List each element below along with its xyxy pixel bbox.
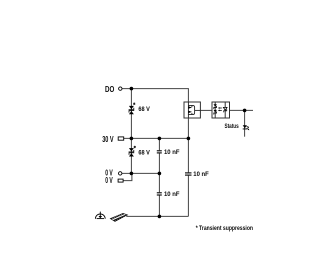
wire LED box to status node [230,109,254,111]
svg-text:0 V: 0 V [105,176,113,185]
status indicator LED box U1 [212,102,230,118]
svg-text:DO: DO [105,84,115,94]
capacitor C3 10nF [185,173,192,175]
node DO junction [130,87,134,91]
wire DO horizontal [122,89,188,102]
transistor Q1 output MOSFET box [184,102,200,118]
rail ground symbol [95,212,105,219]
node 0V junction B [158,172,162,176]
wire vertical branch A lower (30V to 0V) [130,138,132,173]
svg-text:10 nF: 10 nF [164,191,180,198]
svg-text:* Transient suppression: * Transient suppression [196,225,253,232]
node 0V junction A [130,172,134,176]
wire vertical branch C (MOSFET source down to rail) [187,118,189,216]
node status junction [243,109,247,113]
svg-text:68 V: 68 V [138,106,150,113]
svg-text:10 nF: 10 nF [193,171,209,178]
LED status on branch [243,125,247,129]
terminal 0V second (rect) [118,179,123,182]
terminal 0V first (circle) [119,172,122,175]
LED D1 in box [214,104,217,107]
asterisk TVS2 [134,146,136,148]
wire 30V horizontal [124,137,189,139]
node 30V junction C [187,137,191,141]
wire status branch down [244,110,246,136]
svg-text:10 nF: 10 nF [164,149,180,156]
suppressor diode TVS2 68V [129,148,135,156]
terminal 30V (rect) [118,137,124,140]
node 30V junction A [130,137,134,141]
svg-text:30 V: 30 V [102,134,114,144]
wire vertical branch A upper (DO to 30V) [130,89,132,139]
wire MOSFET to LED box [200,109,212,111]
diode D3 in box [223,107,227,110]
wire 0V second stub [123,173,132,180]
svg-text:68 V: 68 V [138,149,150,156]
capacitor C1 10nF [157,151,162,153]
asterisk TVS1 [133,103,135,105]
DIN rail symbol [110,213,129,222]
suppressor diode TVS1 68V [129,106,135,114]
light arrows in box [219,108,222,110]
terminal DO (circle) [119,87,122,90]
wire 0V horizontal [122,172,159,174]
wire vertical branch B (30V to rail) [158,138,160,216]
svg-text:Status: Status [225,123,239,130]
wire bottom rail [126,215,188,217]
LED D2 in box [214,110,217,113]
node 30V junction B [158,137,162,141]
node rail junction [158,215,162,219]
capacitor C2 10nF [157,193,162,195]
